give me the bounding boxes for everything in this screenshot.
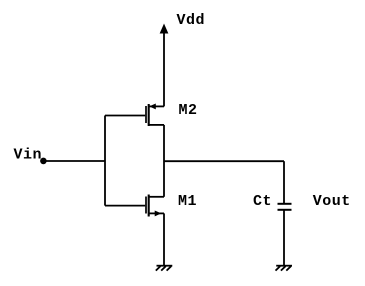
ground (below Ct) <box>276 266 293 271</box>
M1 gate stub <box>105 205 145 207</box>
M2 source arrow (points left into channel) <box>150 104 155 109</box>
svg-text:Vdd: Vdd <box>177 12 206 29</box>
wire M1 source to ground <box>163 213 165 265</box>
M2 drain arm (bottom) <box>150 124 165 126</box>
wire M2 drain to M1 drain (output vertical) <box>163 125 165 197</box>
M1 source arm (bottom) <box>150 212 165 214</box>
M2 channel bar <box>148 104 150 126</box>
wire capacitor bottom to ground <box>283 210 285 266</box>
M1 channel bar <box>148 195 150 217</box>
wire Vdd supply vertical <box>163 31 165 106</box>
transistor M1 (NMOS) <box>105 195 164 217</box>
transistor M2 (PMOS) <box>105 104 164 126</box>
svg-text:M1: M1 <box>178 193 197 210</box>
label Vin <box>14 147 43 164</box>
svg-text:Vout: Vout <box>313 193 351 210</box>
label Vdd <box>177 12 206 29</box>
M2 gate bar <box>145 106 147 123</box>
M1 drain arm (top) <box>150 196 165 198</box>
wire Vin to gate bus <box>45 160 105 162</box>
wire output horizontal to capacitor <box>164 160 284 162</box>
wire capacitor top vertical <box>283 161 285 204</box>
svg-text:M2: M2 <box>179 102 198 119</box>
M1 gate bar <box>145 197 147 214</box>
Ct top plate <box>278 203 292 205</box>
svg-text:Vin: Vin <box>14 147 43 164</box>
label Ct <box>253 193 272 210</box>
arrowhead Vdd (points up) <box>160 25 167 33</box>
Ct bottom plate <box>278 209 292 211</box>
wire gate bus vertical <box>104 116 106 206</box>
label Vout <box>313 193 351 210</box>
capacitor Ct <box>278 204 292 210</box>
ground (below M1) <box>156 266 173 271</box>
label M1 <box>178 193 197 210</box>
M1 source arrow (points right away from channel) <box>155 211 160 216</box>
node Vin terminal dot <box>40 158 47 165</box>
M2 source arm (top) <box>150 105 165 107</box>
svg-text:Ct: Ct <box>253 193 272 210</box>
M2 gate stub <box>105 115 145 117</box>
label M2 <box>179 102 198 119</box>
